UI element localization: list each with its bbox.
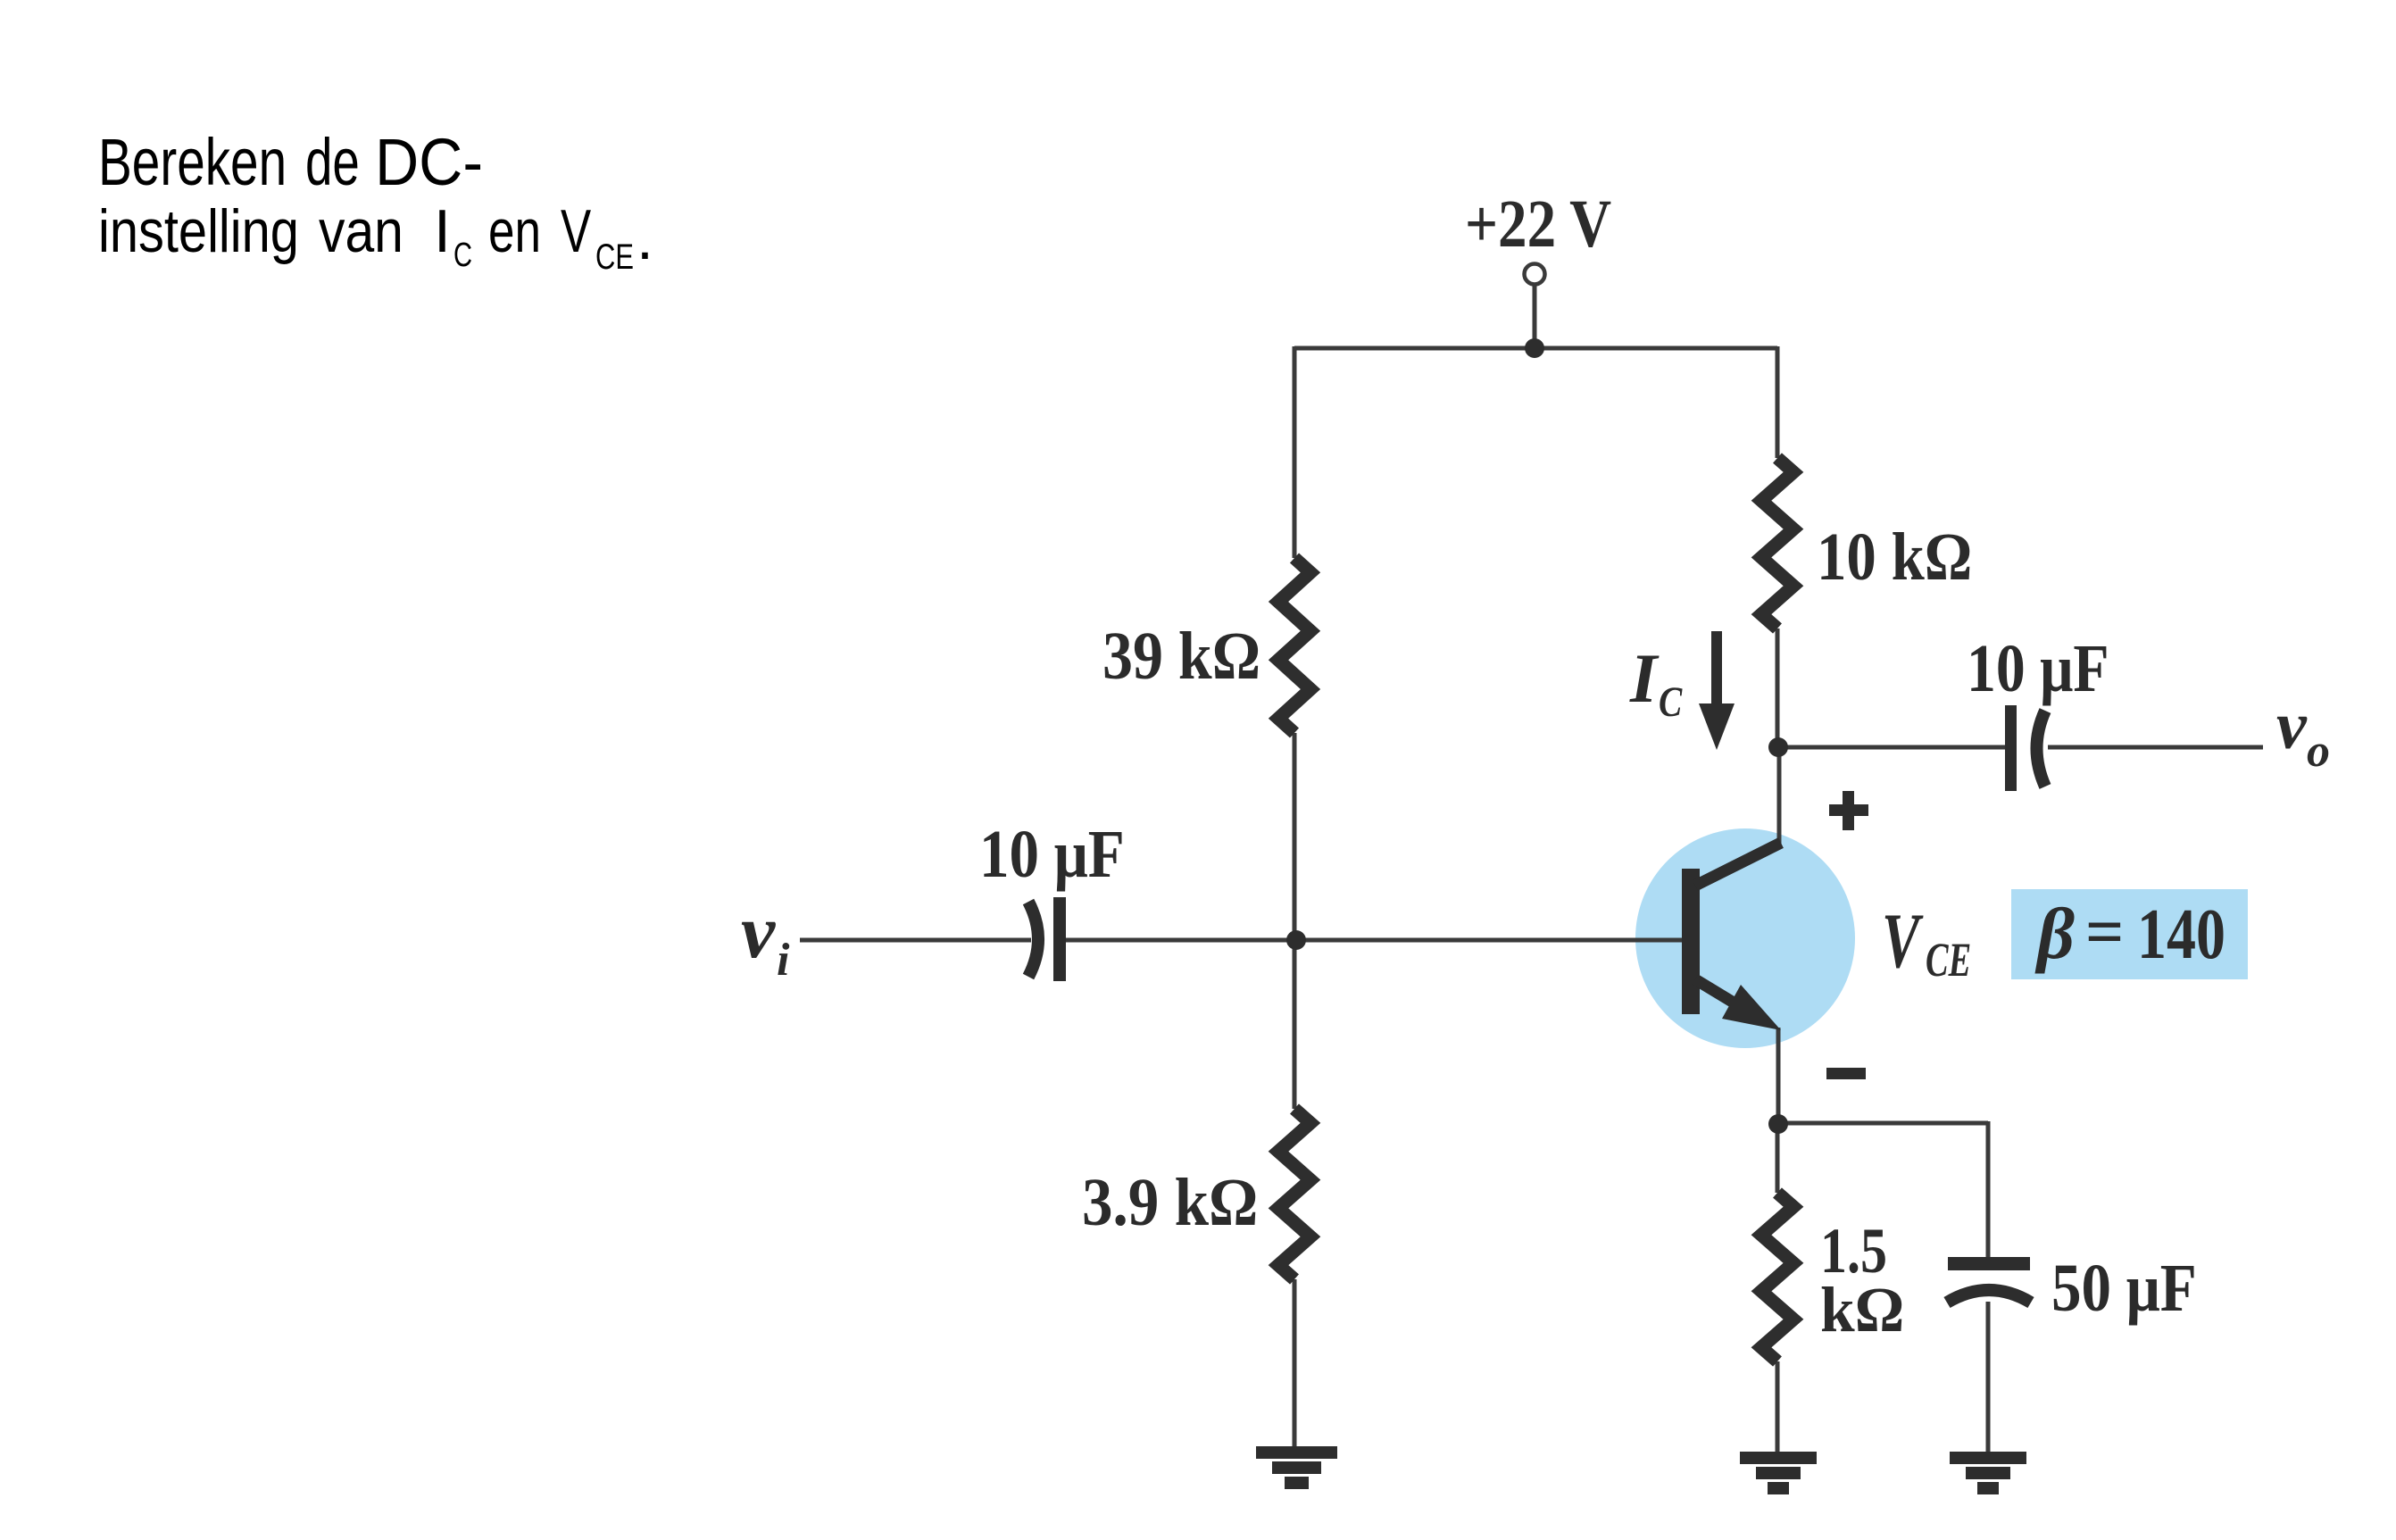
svg-text:de: de (305, 125, 360, 199)
svg-text:CE: CE (1926, 934, 1971, 987)
svg-text:I: I (1629, 639, 1660, 717)
svg-text:10 μF: 10 μF (979, 817, 1125, 892)
svg-text:van: van (319, 197, 403, 265)
svg-text:v: v (2276, 688, 2308, 763)
svg-text:10 μF: 10 μF (1967, 632, 2109, 706)
svg-text:39 kΩ: 39 kΩ (1102, 619, 1260, 694)
svg-text:CE: CE (595, 237, 634, 277)
svg-text:10 kΩ: 10 kΩ (1817, 520, 1972, 595)
svg-text:140: 140 (2137, 895, 2225, 973)
svg-text:V: V (1882, 897, 1924, 985)
svg-text:instelling: instelling (98, 198, 299, 265)
svg-text:=: = (2085, 895, 2124, 970)
svg-text:C: C (453, 236, 472, 274)
svg-text:β: β (2034, 893, 2075, 974)
svg-text:v: v (741, 888, 776, 974)
svg-text:50 μF: 50 μF (2051, 1251, 2197, 1326)
svg-text:o: o (2307, 726, 2330, 777)
svg-text:en: en (488, 197, 541, 265)
svg-text:I: I (434, 197, 451, 265)
svg-text:C: C (1659, 678, 1683, 725)
svg-text:i: i (777, 935, 790, 986)
svg-text:V: V (561, 197, 591, 265)
svg-text:3.9 kΩ: 3.9 kΩ (1082, 1164, 1258, 1240)
svg-text:DC-: DC- (375, 126, 483, 199)
svg-text:.: . (636, 204, 653, 272)
svg-text:+22 V: +22 V (1465, 187, 1611, 262)
svg-text:Bereken: Bereken (98, 125, 287, 199)
svg-text:kΩ: kΩ (1820, 1275, 1904, 1345)
